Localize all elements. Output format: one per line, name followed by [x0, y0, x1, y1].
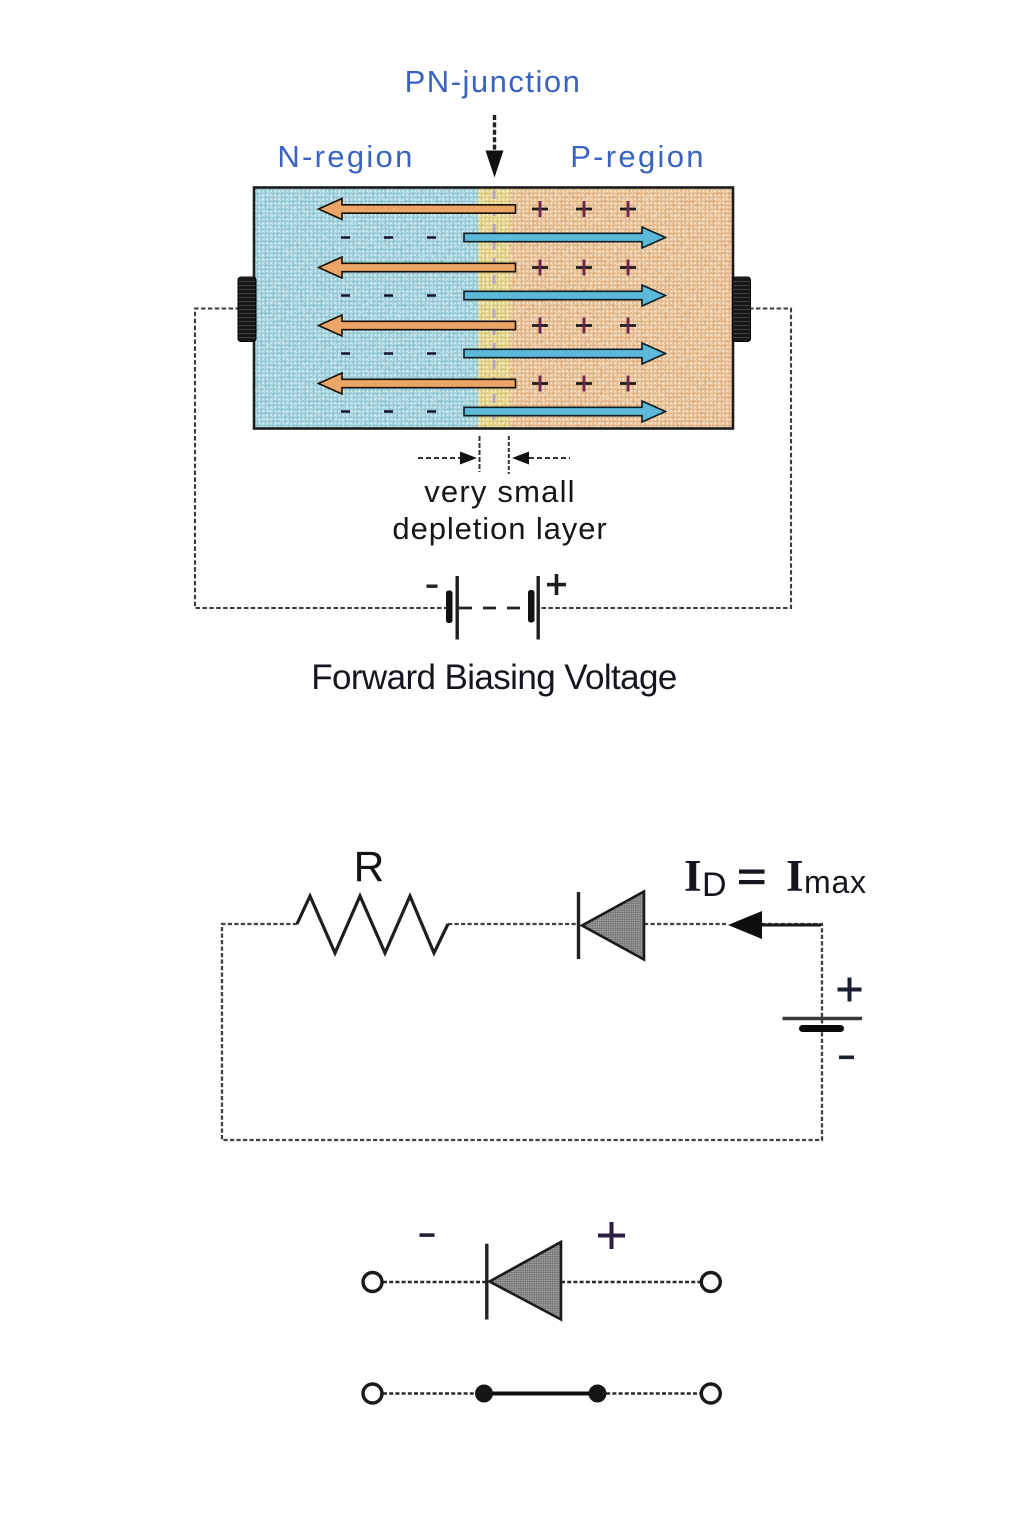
svg-text:I: I [684, 851, 702, 901]
svg-text:PN-junction: PN-junction [405, 64, 582, 99]
svg-text:very small: very small [424, 474, 576, 509]
svg-text:depletion layer: depletion layer [392, 511, 607, 546]
svg-text:max: max [804, 864, 867, 900]
svg-text:R: R [354, 844, 385, 891]
svg-text:N-region: N-region [277, 139, 414, 174]
svg-text:Forward Biasing Voltage: Forward Biasing Voltage [311, 658, 677, 697]
svg-text:I: I [786, 851, 804, 901]
svg-text:D: D [702, 866, 727, 904]
svg-text:P-region: P-region [570, 139, 706, 174]
